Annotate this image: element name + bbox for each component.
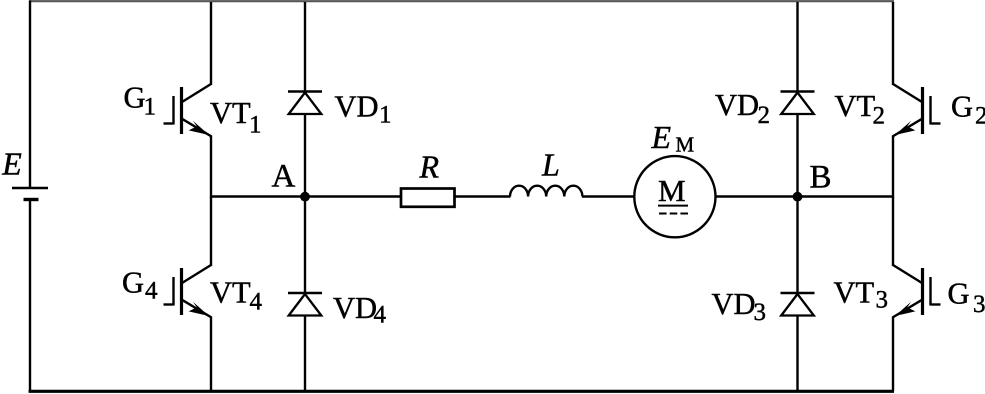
resistor R: [401, 189, 455, 207]
battery E positive plate: [12, 187, 48, 189]
wire: motor to node B: [716, 195, 895, 197]
node B junction dot: [793, 192, 803, 202]
diode VD3: [781, 293, 815, 316]
wire: VD1 branch from top rail: [304, 2, 306, 92]
svg-text:VD: VD: [712, 287, 756, 321]
svg-text:VT: VT: [834, 276, 875, 310]
wire: left rail lower (E- to bottom rail): [29, 200, 31, 393]
wire: mid horizontal A-left to resistor: [210, 195, 402, 197]
node A junction dot: [300, 192, 310, 202]
svg-text:2: 2: [873, 103, 886, 130]
wire: VD2 anode down through node B to VD3: [796, 114, 798, 294]
transistor VT3 (IGBT): [892, 265, 940, 318]
battery E negative plate: [24, 198, 39, 201]
svg-text:G: G: [948, 277, 970, 311]
wire: VD1 anode down through node A to VD4: [304, 114, 306, 294]
wire: VD3 anode to bottom rail: [796, 316, 798, 392]
wire: top rail: [29, 0, 894, 2]
svg-text:VT: VT: [835, 89, 876, 123]
diode VD4: [288, 293, 322, 316]
svg-text:3: 3: [876, 287, 889, 314]
svg-text:VD: VD: [335, 90, 379, 124]
svg-text:A: A: [272, 159, 296, 195]
svg-text:2: 2: [975, 103, 985, 130]
svg-text:VT: VT: [210, 276, 251, 310]
svg-text:4: 4: [250, 289, 263, 316]
svg-text:G: G: [124, 81, 146, 115]
svg-text:G: G: [951, 90, 973, 124]
svg-text:B: B: [810, 160, 832, 196]
wire: VT3 emitter to bottom rail: [892, 317, 894, 392]
svg-text:3: 3: [754, 299, 767, 326]
svg-text:VD: VD: [715, 88, 759, 122]
svg-text:VD: VD: [333, 291, 377, 325]
wire: mid wire from VT2 leg down to VT3: [892, 197, 894, 266]
wire: VT1 collector from top rail: [210, 2, 212, 84]
svg-text:1: 1: [144, 94, 157, 121]
wire: bottom rail: [29, 390, 894, 393]
wire: VT2 emitter down to mid wire: [892, 136, 894, 198]
motor dashed line: [659, 213, 688, 215]
wire: VT4 emitter to bottom rail: [210, 317, 212, 392]
svg-text:4: 4: [374, 302, 387, 329]
motor underline: [658, 205, 688, 207]
diode VD1: [288, 92, 322, 115]
inductor L (4 humps): [510, 186, 582, 197]
svg-text:L: L: [541, 147, 560, 183]
wire: left rail upper (E+ to top rail): [29, 1, 31, 189]
transistor VT4 (IGBT): [164, 265, 212, 318]
motor M circle: [634, 156, 715, 237]
transistor VT1 (IGBT): [164, 84, 212, 137]
svg-text:G: G: [122, 266, 144, 300]
svg-text:2: 2: [758, 102, 771, 129]
svg-text:E: E: [1, 146, 22, 182]
svg-text:M: M: [676, 133, 695, 157]
svg-text:R: R: [419, 149, 440, 185]
transistor VT2 (IGBT): [892, 84, 940, 137]
svg-text:3: 3: [973, 291, 985, 318]
svg-text:E: E: [651, 119, 672, 155]
wire: VT1 emitter down to mid wire: [210, 136, 212, 198]
svg-text:4: 4: [145, 278, 158, 305]
wire: VD2 branch from top rail: [796, 2, 798, 92]
svg-text:M: M: [658, 173, 686, 208]
svg-text:1: 1: [379, 102, 392, 129]
svg-text:VT: VT: [210, 96, 251, 130]
wire: VD4 anode to bottom rail: [304, 316, 306, 392]
diode VD2: [781, 92, 815, 115]
wire: resistor to inductor: [455, 195, 511, 197]
wire: inductor to motor: [582, 195, 635, 197]
wire: VT2 collector from top rail: [892, 2, 894, 84]
wire: mid wire from VT1 leg down to VT4: [210, 197, 212, 266]
svg-text:1: 1: [249, 112, 262, 139]
